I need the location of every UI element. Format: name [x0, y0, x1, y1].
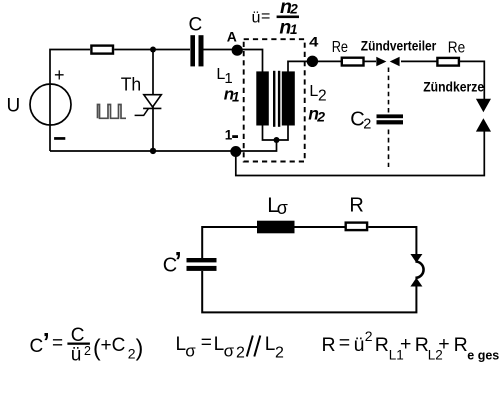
label n2 [308, 103, 325, 124]
capacitor C [190, 35, 203, 66]
wire primary+secondary bottoms to junction [263, 125, 289, 140]
svg-text:1: 1 [225, 128, 233, 143]
svg-text:R: R [349, 195, 363, 217]
svg-text:1: 1 [232, 89, 240, 104]
spark plug gap Zündkerze [476, 99, 491, 132]
svg-text:+: + [400, 333, 411, 355]
wire resistor to capacitor C [114, 49, 190, 51]
svg-text:C: C [189, 15, 203, 36]
svg-text:Re: Re [332, 39, 348, 56]
svg-text:R: R [322, 334, 336, 356]
svg-text:+: + [54, 65, 65, 85]
svg-text:C: C [30, 336, 44, 357]
wire capacitor to node A [203, 49, 237, 51]
resistor R [346, 223, 367, 231]
svg-text:2: 2 [318, 88, 327, 105]
junction thyristor bottom [150, 148, 156, 154]
label C2 [350, 108, 371, 132]
voltage source U [30, 84, 71, 125]
capacitor C' [187, 258, 217, 271]
label Lsigma [267, 194, 288, 218]
wire junction down to node 1 [236, 140, 277, 151]
resistor Re (right) [437, 58, 459, 66]
wire distributor to Re right [401, 60, 437, 62]
transformer core [273, 71, 280, 127]
svg-text:2: 2 [289, 2, 298, 17]
gate pulse waveform [98, 105, 127, 119]
svg-text:ü: ü [71, 345, 82, 366]
svg-text:e ges: e ges [467, 349, 499, 363]
resistor Re (left) [342, 58, 364, 66]
wire node 4 to Re left [313, 60, 341, 62]
capacitor C2 [377, 114, 404, 124]
svg-text:Th: Th [121, 75, 142, 95]
wire node A to primary top [237, 50, 263, 73]
svg-text:’: ’ [175, 246, 182, 276]
wire bottom from source to node 1 [50, 150, 237, 152]
formula C' = C/ü² (+C2) [30, 325, 144, 366]
svg-text:=: = [52, 333, 63, 354]
svg-text:’: ’ [43, 329, 50, 357]
svg-text:2: 2 [84, 344, 91, 358]
wire bottom return to node 1 [236, 132, 484, 176]
capacitor C2 dashed lead bottom [388, 130, 390, 168]
svg-text:2: 2 [365, 328, 373, 344]
junction transformer bottom [274, 137, 280, 143]
svg-text:U: U [7, 96, 21, 117]
resistor (series, unlabeled) [91, 46, 113, 54]
wire thyristor branch [152, 50, 154, 152]
svg-text:): ) [136, 335, 144, 361]
svg-text:+C: +C [101, 335, 126, 356]
wire Re to distributor gap [365, 60, 377, 62]
node 4 [307, 56, 318, 67]
transformer dashed box [244, 39, 305, 161]
svg-text:2: 2 [236, 345, 245, 362]
spark gap (bottom loop) [410, 254, 423, 287]
formula Lσ = Lσ2 ∥ L2 [176, 333, 285, 362]
wire bottom loop [202, 227, 416, 312]
capacitor C2 dashed lead top [388, 68, 390, 115]
label L1 [216, 66, 232, 87]
label L2 [309, 83, 326, 105]
label n1 [224, 85, 240, 105]
inductor Lsigma [257, 221, 295, 234]
svg-text:2: 2 [363, 116, 371, 132]
transformer primary winding L1 [256, 71, 269, 125]
svg-text:L: L [265, 334, 276, 355]
spark gap Zündverteiler (distributor) [376, 57, 399, 67]
svg-text:=: = [201, 333, 212, 354]
wire secondary top to node 4 [288, 61, 313, 72]
svg-text:ü: ü [354, 334, 365, 356]
svg-text:+: + [438, 333, 449, 355]
svg-text:σ: σ [224, 341, 235, 360]
svg-text:2: 2 [275, 345, 284, 362]
junction thyristor top [150, 47, 156, 53]
svg-text:4: 4 [309, 33, 318, 49]
svg-text:R: R [454, 334, 468, 356]
svg-text:Zündverteiler: Zündverteiler [361, 37, 437, 53]
label ü = n2/n1 [252, 0, 300, 38]
transformer secondary winding L2 [282, 71, 295, 125]
formula R = ü²RL1 + RL2 + Re ges [322, 328, 500, 363]
svg-text:A: A [227, 28, 237, 44]
svg-text:=: = [339, 332, 350, 354]
thyristor Th [135, 95, 162, 116]
node 1 [230, 146, 241, 157]
svg-text:=: = [261, 8, 270, 25]
svg-text:1: 1 [290, 22, 298, 37]
svg-text:L: L [214, 334, 225, 355]
svg-text:Re: Re [448, 39, 465, 56]
svg-text:2: 2 [316, 108, 325, 124]
svg-text:σ: σ [277, 198, 288, 218]
wire Re right to spark plug [460, 61, 484, 100]
svg-text:2: 2 [128, 346, 136, 362]
svg-text:σ: σ [185, 341, 196, 360]
svg-text:Zündkerze: Zündkerze [423, 79, 484, 95]
svg-text:R: R [375, 334, 389, 356]
wire left rail and top segment [50, 50, 90, 152]
svg-text:ü: ü [252, 9, 261, 26]
node A [232, 45, 243, 56]
